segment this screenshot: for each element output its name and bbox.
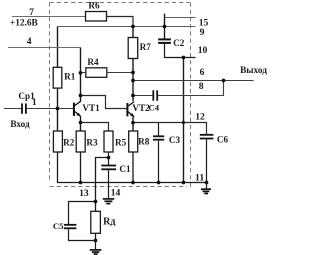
wire VT2 collector column (132, 59, 134, 102)
wire R2 top (57, 109, 59, 132)
wire pin 8 line right (158, 81, 223, 96)
capacitor C6 (200, 135, 214, 139)
svg-text:C4: C4 (148, 102, 159, 112)
wire pin 7 supply rail (12, 16, 86, 18)
capacitor C1 (101, 166, 116, 170)
svg-text:9: 9 (200, 27, 205, 38)
node R5 bottom (107, 156, 111, 160)
wire C1 top (108, 158, 110, 166)
node R4 left (79, 71, 83, 75)
svg-text:C3: C3 (169, 135, 181, 145)
svg-text:4: 4 (27, 36, 32, 47)
wire bias line (pin 9) (58, 26, 196, 28)
resistor Rd (91, 211, 101, 233)
wire R5 bottom node (108, 152, 110, 158)
wire VT1 collector column (80, 48, 82, 102)
wire R1 bottom (57, 88, 59, 108)
wire R8 bottom (132, 152, 134, 183)
wire C6 bottom (206, 139, 208, 182)
ground bottom (95, 241, 97, 250)
svg-text:VT1: VT1 (82, 103, 100, 113)
rail node C3 (157, 181, 161, 185)
wire R8 top (132, 123, 134, 132)
rail node R3 (79, 181, 83, 185)
IC boundary dashed box (50, 3, 191, 188)
svg-text:R8: R8 (138, 137, 150, 147)
svg-text:VT2: VT2 (132, 103, 150, 113)
wire C2 bottom to pin 10 line (165, 44, 196, 58)
resistor R2 (53, 131, 62, 152)
wire pin 15 stub (165, 17, 196, 19)
rail node ground drop (182, 181, 186, 185)
svg-text:Rд: Rд (103, 217, 115, 228)
svg-text:R6: R6 (88, 1, 100, 11)
wire input (4, 108, 22, 110)
resistor R8 (129, 131, 138, 152)
wire R6 right to bias line (107, 17, 134, 27)
wire node 13 branch (96, 158, 109, 202)
rail node R8 (131, 181, 135, 185)
resistor R7 (128, 38, 138, 59)
svg-text:Вход: Вход (10, 119, 30, 129)
wire C2 upper tick (164, 14, 166, 39)
node C2 bias (163, 25, 167, 29)
wire Rd top (95, 202, 97, 212)
wire pin 12 emitter line (133, 123, 207, 135)
node C4 on collector (131, 94, 135, 98)
node VT2 emitter (131, 121, 135, 125)
wire C5 bottom branch (69, 229, 96, 240)
node VT1 emitter (79, 121, 83, 125)
node R6/R7 bias (131, 25, 135, 29)
wire VT2 emitter down (132, 117, 134, 123)
wire C3 bottom (158, 141, 160, 183)
wire C1 bottom to pin14 ground (108, 170, 110, 198)
svg-text:8: 8 (199, 81, 204, 92)
transistor VT1 (74, 101, 81, 116)
wire R7 top (132, 27, 134, 38)
resistor R5 (104, 131, 113, 152)
capacitor C4 (153, 90, 157, 100)
svg-text:R2: R2 (63, 137, 75, 147)
wire riser R1 top (57, 27, 59, 68)
wire Rd bottom (95, 233, 97, 240)
node pin6 on collector (131, 79, 135, 83)
svg-text:14: 14 (111, 187, 121, 198)
svg-text:R1: R1 (64, 71, 76, 81)
capacitor C2 (158, 39, 171, 43)
ground pin 11 (206, 183, 208, 189)
capacitor C3 (153, 136, 164, 139)
node R4 right (131, 71, 135, 75)
svg-text:R3: R3 (86, 137, 98, 147)
svg-text:C5: C5 (53, 221, 64, 231)
resistor R6 (86, 12, 107, 22)
svg-text:C2: C2 (173, 38, 185, 48)
node pin12 cross (182, 121, 185, 124)
ground pin 14 (103, 199, 114, 204)
svg-text:R4: R4 (87, 57, 99, 67)
node output (222, 79, 226, 83)
VT1 emitter arrow (77, 113, 81, 117)
svg-text:C6: C6 (217, 135, 229, 145)
node 13 top (94, 200, 98, 204)
wire VT1 emitter down (80, 116, 82, 122)
svg-text:Выход: Выход (240, 66, 267, 76)
wire ground rail (58, 152, 207, 183)
node pin10 (182, 56, 186, 60)
resistor R3 (76, 131, 85, 152)
VT2 emitter arrow (130, 113, 134, 117)
wire long ground drop x=183.5 (183, 58, 185, 183)
wire pin 8 line left (133, 95, 152, 97)
wire input to base (27, 108, 74, 110)
wire pin 4 (8, 47, 81, 49)
svg-text:11: 11 (195, 172, 204, 183)
svg-text:R5: R5 (115, 137, 127, 147)
wire C3 top (158, 123, 160, 136)
capacitor C5 (64, 225, 77, 229)
svg-text:7: 7 (29, 7, 34, 18)
svg-text:1: 1 (32, 97, 37, 108)
svg-text:6: 6 (200, 67, 205, 78)
wire VT2 base tap (81, 96, 128, 109)
resistor R4 (81, 72, 86, 74)
wire R3 bottom (80, 152, 82, 183)
svg-text:R7: R7 (140, 42, 152, 52)
svg-text:13: 13 (79, 188, 89, 199)
capacitor Cp1 (22, 103, 26, 113)
svg-text:12: 12 (195, 112, 205, 123)
node VT2 base tap (79, 94, 83, 98)
transistor VT2 (127, 102, 134, 117)
rail node C6 (205, 181, 209, 185)
wire C5 top branch (69, 202, 96, 225)
wire pin 6 output line (133, 80, 254, 82)
svg-text:C1: C1 (119, 164, 131, 174)
node input (56, 107, 60, 111)
wire R3 top (80, 123, 82, 132)
svg-text:10: 10 (198, 45, 208, 56)
node 13 bottom (94, 239, 98, 243)
resistor R1 (53, 67, 62, 88)
wire emitter row VT1 to R5 (81, 123, 109, 132)
svg-text:+12.6В: +12.6В (10, 19, 38, 29)
